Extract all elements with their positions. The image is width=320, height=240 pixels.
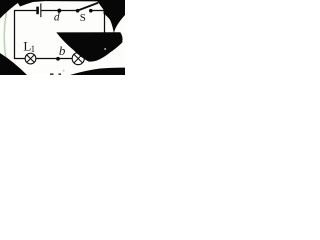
svg-text:1: 1	[31, 44, 35, 54]
svg-text:b: b	[59, 43, 66, 58]
svg-text:S: S	[80, 12, 86, 24]
svg-text:d: d	[54, 12, 60, 24]
